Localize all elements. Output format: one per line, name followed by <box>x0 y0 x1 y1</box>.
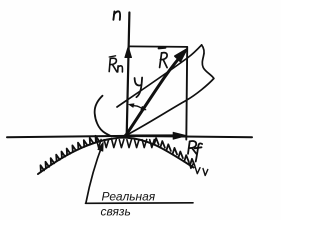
origin junction <box>124 134 128 138</box>
underline of annotation <box>86 202 194 205</box>
angle double-headed arrow between axis and R <box>130 105 145 110</box>
angle phi label (handwritten) <box>135 78 143 98</box>
svg-text:Реальная: Реальная <box>102 190 156 204</box>
hatching teeth on bump (left flank) <box>41 136 100 172</box>
axis n <box>127 13 130 136</box>
surface line <box>7 136 252 137</box>
svg-text:связь: связь <box>101 205 131 219</box>
vector R (total reaction, thick diagonal arrow) <box>126 52 185 136</box>
label R (R bar) <box>159 48 168 68</box>
label Rf <box>188 141 202 162</box>
thin line from lower-left to flag peak (upper cone edge) <box>117 45 202 107</box>
leader line from label to bump <box>86 145 103 203</box>
sparse teeth at bump tail <box>189 161 208 176</box>
hatching teeth on bump (right flank) <box>154 138 195 165</box>
top construction line <box>129 45 187 48</box>
vector R arrow head <box>175 49 187 61</box>
thin line origin to flag corner (lower cone edge) <box>126 79 214 136</box>
angle arc (left curved stroke) <box>95 96 112 137</box>
vector Rn arrow head <box>125 47 132 58</box>
leader arrow head <box>98 142 103 151</box>
vector Rf arrow head <box>173 132 187 139</box>
right construction line <box>185 47 188 140</box>
label n <box>113 11 120 19</box>
label Rn (R bar n) <box>109 56 122 72</box>
vector Rf arrow shaft <box>126 134 176 137</box>
flag wavy torn edge <box>202 45 214 79</box>
rough constraint bump curve <box>38 138 194 174</box>
hatching teeth near bump peak (hanging V) <box>97 139 155 147</box>
